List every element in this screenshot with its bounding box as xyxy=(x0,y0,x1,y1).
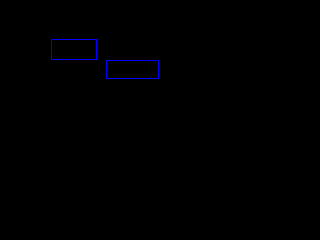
box B2 xyxy=(106,60,159,79)
box B1 xyxy=(51,39,97,60)
